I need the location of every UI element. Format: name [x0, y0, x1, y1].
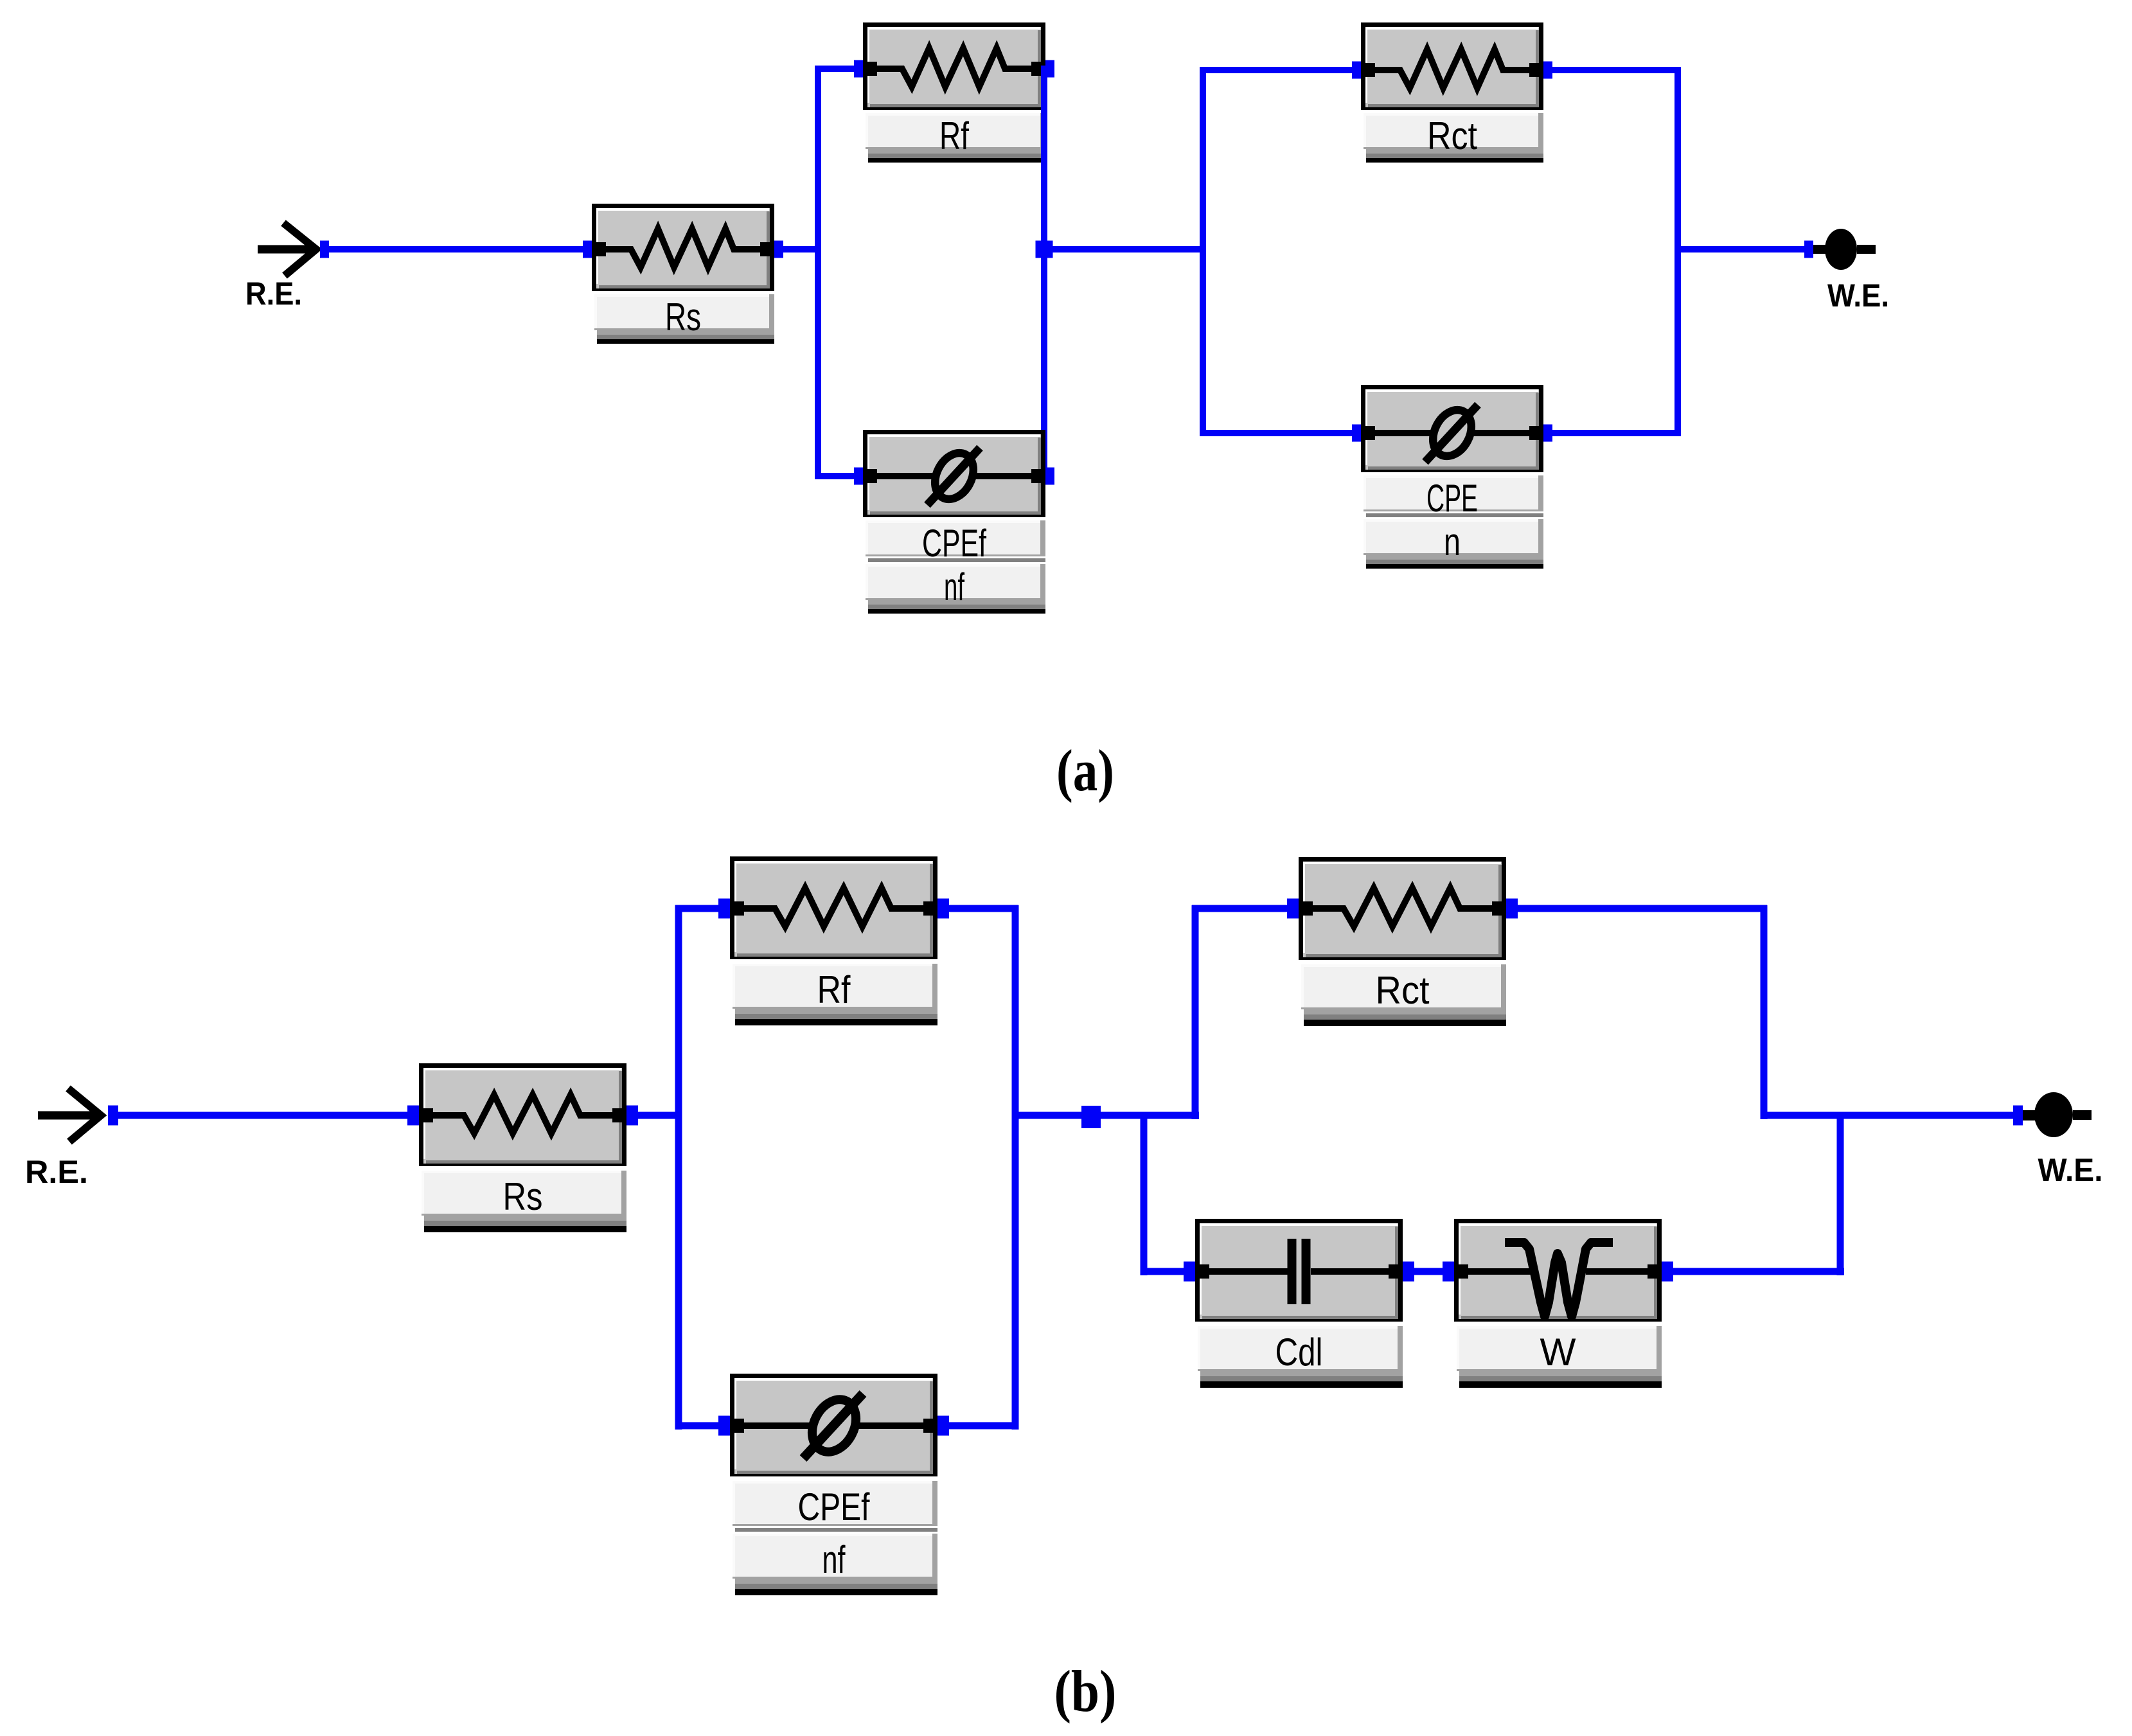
svg-text:W.E.: W.E.	[2038, 1152, 2103, 1188]
wire: vertical down to Cdl branch (panel b)	[1141, 1112, 1148, 1275]
svg-text:R.E.: R.E.	[25, 1154, 88, 1190]
resistor Rs (panel a)	[583, 204, 783, 344]
wire: top branch to Rf (panel b)	[675, 905, 720, 912]
wire: Rs to split junction (panel b)	[637, 1112, 682, 1119]
wire: main line to W.E. (panel b)	[1764, 1112, 2013, 1119]
label R.E. (panel a)	[245, 276, 302, 312]
resistor Rf (panel b)	[718, 856, 949, 1025]
svg-text:Cdl: Cdl	[1275, 1331, 1323, 1374]
svg-text:W.E.: W.E.	[1827, 278, 1889, 314]
svg-text:Rs: Rs	[503, 1175, 543, 1218]
wire: bottom branch to CPEf (panel a)	[815, 473, 854, 479]
CPE element CPEf (panel b)	[718, 1374, 949, 1595]
terminal W.E. (panel a)	[1813, 229, 1876, 270]
Warburg element W (panel b)	[1443, 1219, 1673, 1388]
svg-text:nf: nf	[944, 565, 964, 608]
CPE element CPEf (panel a)	[854, 430, 1054, 614]
svg-text:CPEf: CPEf	[798, 1485, 870, 1528]
wire: Rct to right corner (panel b)	[1516, 905, 1767, 912]
wire: Cdl to W (panel b)	[1413, 1268, 1444, 1275]
wire: right vertical of Rf parallel section (panel b)	[1012, 905, 1019, 1430]
wire: R.E. to Rs (panel a)	[329, 246, 583, 252]
svg-text:nf: nf	[822, 1538, 846, 1581]
wire: riser from W branch to main line (panel b)	[1837, 1112, 1844, 1275]
wire: Rf to right vertical (panel b)	[948, 905, 1018, 912]
node: junction on main line (panel b)	[1081, 1106, 1101, 1128]
resistor Rct (panel b)	[1287, 857, 1518, 1026]
label R.E. (panel b)	[25, 1154, 88, 1190]
wire: left vertical of Rf parallel section (panel a)	[815, 66, 821, 479]
resistor Rf (panel a)	[854, 22, 1054, 163]
svg-text:Rct: Rct	[1427, 114, 1477, 157]
node: R.E. endpoint (panel a)	[320, 241, 329, 258]
svg-text:CPEf: CPEf	[922, 522, 986, 565]
wire: top branch to Rct (panel a)	[1200, 67, 1352, 73]
svg-text:Rf: Rf	[939, 114, 969, 157]
resistor Rct (panel a)	[1352, 22, 1552, 163]
node: W.E. endpoint (panel b)	[2013, 1106, 2023, 1126]
label W.E. (panel a)	[1827, 278, 1889, 314]
wire: CPEf to right vertical (panel b)	[948, 1422, 1018, 1430]
label (a)	[1056, 738, 1114, 803]
wire: right vertical of Rct parallel section (panel a)	[1675, 67, 1681, 436]
svg-text:CPE: CPE	[1426, 477, 1478, 520]
label (b)	[1054, 1658, 1117, 1724]
wire: left vertical of Rf parallel section (panel b)	[675, 905, 682, 1430]
wire: top branch to Rf (panel a)	[815, 66, 855, 72]
wire: CPE to right vertical (panel a)	[1552, 430, 1681, 436]
wire: bottom branch to CPEf (panel b)	[675, 1422, 720, 1430]
wire: junction to second split (panel a)	[1044, 246, 1203, 252]
svg-text:Rct: Rct	[1376, 969, 1430, 1012]
svg-text:R.E.: R.E.	[245, 276, 302, 312]
terminal R.E. (panel a)	[258, 223, 316, 276]
node: W.E. endpoint (panel a)	[1804, 241, 1813, 258]
wire: to W.E. (panel a)	[1678, 246, 1804, 252]
wire: R.E. to Rs (panel b)	[118, 1112, 409, 1119]
resistor Rs (panel b)	[407, 1063, 638, 1232]
svg-text:Rs: Rs	[665, 296, 701, 339]
wire: right vertical down from Rct branch (panel b)	[1761, 905, 1768, 1119]
wire: left vertical up to Rct branch (panel b)	[1192, 905, 1199, 1119]
terminal R.E. (panel b)	[38, 1088, 101, 1142]
wire: Rs to split junction (panel a)	[783, 246, 821, 252]
wire: Rct to right vertical (panel a)	[1552, 67, 1681, 73]
wire: W to right riser (panel b)	[1672, 1268, 1844, 1275]
wire: right vertical of Rf parallel section (panel a)	[1041, 66, 1047, 479]
label W.E. (panel b)	[2038, 1152, 2103, 1188]
node: R.E. endpoint (panel b)	[108, 1106, 118, 1126]
svg-text:W: W	[1540, 1331, 1576, 1374]
svg-text:(b): (b)	[1054, 1658, 1117, 1724]
wire: bottom branch to CPE (panel a)	[1200, 430, 1352, 436]
terminal W.E. (panel b)	[2023, 1092, 2092, 1137]
wire: top branch to Rct (panel b)	[1192, 905, 1288, 912]
wire: left vertical of Rct parallel section (panel a)	[1200, 67, 1206, 436]
svg-text:n: n	[1444, 520, 1461, 563]
capacitor Cdl (panel b)	[1184, 1219, 1414, 1388]
CPE element CPE (panel a)	[1352, 385, 1552, 569]
wire: Cdl branch from vertical (panel b)	[1141, 1268, 1185, 1275]
node: junction on right vertical (panel a)	[1036, 241, 1053, 258]
svg-text:Rf: Rf	[817, 968, 851, 1011]
wire: main line across to Rct split (panel b)	[1015, 1112, 1199, 1119]
svg-text:(a): (a)	[1056, 738, 1114, 803]
